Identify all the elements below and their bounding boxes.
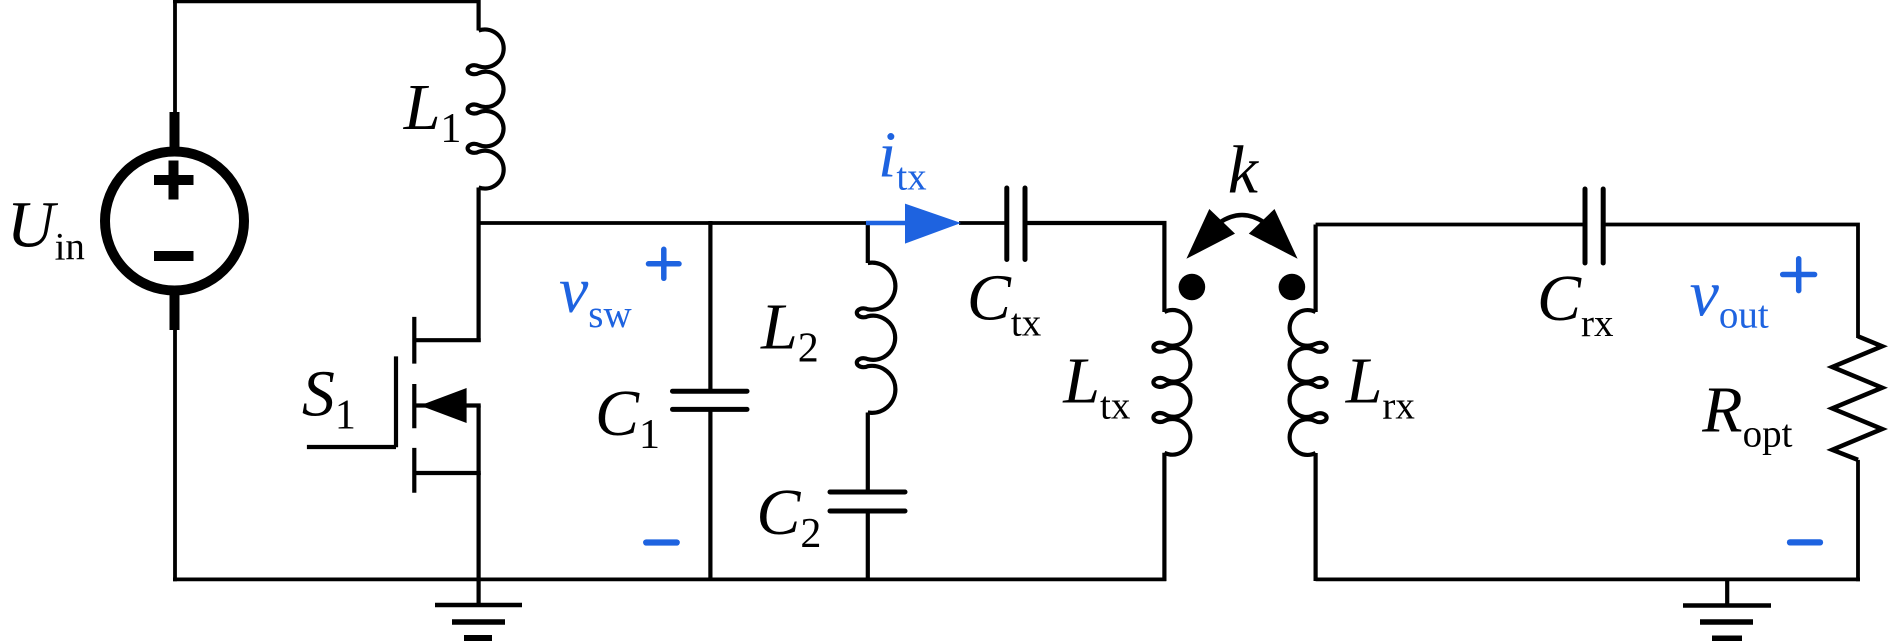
svg-text:Ltx: Ltx bbox=[1062, 344, 1131, 427]
svg-text:Crx: Crx bbox=[1537, 262, 1614, 345]
svg-text:C2: C2 bbox=[756, 476, 821, 557]
svg-text:S1: S1 bbox=[302, 358, 356, 439]
svg-text:L2: L2 bbox=[760, 291, 819, 372]
capacitor C_tx bbox=[1007, 188, 1025, 260]
svg-text:Ctx: Ctx bbox=[967, 262, 1042, 345]
inductor L_rx (transformer secondary) bbox=[1290, 225, 1327, 582]
inductor L2 bbox=[857, 221, 896, 492]
coupling arrowhead left bbox=[1186, 209, 1235, 259]
coupling arc k bbox=[1219, 215, 1265, 223]
capacitor C1 bbox=[673, 221, 748, 581]
svg-text:Ropt: Ropt bbox=[1701, 374, 1792, 456]
wire middle rail (switch node) bbox=[479, 221, 869, 225]
minus sign (v_out) bbox=[1790, 539, 1820, 545]
resistor R_opt bbox=[1832, 336, 1882, 460]
ground (rx) bbox=[1683, 579, 1771, 639]
wire middle rail right of arrow bbox=[959, 221, 1005, 225]
svg-text:L1: L1 bbox=[403, 71, 462, 152]
wire left vertical upper bbox=[173, 0, 177, 116]
wire rx top rail left bbox=[1316, 223, 1585, 227]
plus sign (v_out) bbox=[1783, 259, 1815, 291]
plus sign (v_sw) bbox=[649, 249, 680, 278]
svg-text:vout: vout bbox=[1690, 258, 1769, 337]
svg-text:vsw: vsw bbox=[559, 254, 632, 336]
svg-text:itx: itx bbox=[878, 119, 927, 199]
capacitor C2 bbox=[830, 492, 905, 581]
wire rx bottom rail bbox=[1316, 578, 1860, 582]
current arrow i_tx bbox=[866, 221, 910, 226]
svg-text:Uin: Uin bbox=[7, 189, 85, 269]
wire left vertical lower bbox=[173, 328, 177, 581]
transistor S1 (MOSFET) bbox=[307, 223, 481, 581]
inductor L1 bbox=[468, 0, 504, 225]
wire top rail bbox=[173, 0, 481, 3]
wire rx top rail right bbox=[1603, 225, 1858, 339]
wire bottom rail (tx side) bbox=[173, 578, 1166, 582]
svg-text:Lrx: Lrx bbox=[1345, 344, 1416, 427]
minus sign (v_sw) bbox=[646, 539, 677, 545]
dot marker tx winding bbox=[1179, 274, 1206, 301]
svg-text:C1: C1 bbox=[595, 377, 660, 458]
voltage source U_in bbox=[105, 112, 244, 330]
capacitor C_rx bbox=[1585, 189, 1603, 263]
coupling arrowhead right bbox=[1249, 209, 1298, 259]
svg-text:k: k bbox=[1228, 132, 1260, 208]
inductor L_tx (transformer primary) bbox=[1153, 310, 1190, 581]
wire C_tx to L_tx bbox=[1025, 223, 1164, 312]
body diode arrow of S1 bbox=[420, 388, 467, 423]
ground (tx) bbox=[435, 579, 522, 639]
dot marker rx winding bbox=[1279, 274, 1306, 301]
